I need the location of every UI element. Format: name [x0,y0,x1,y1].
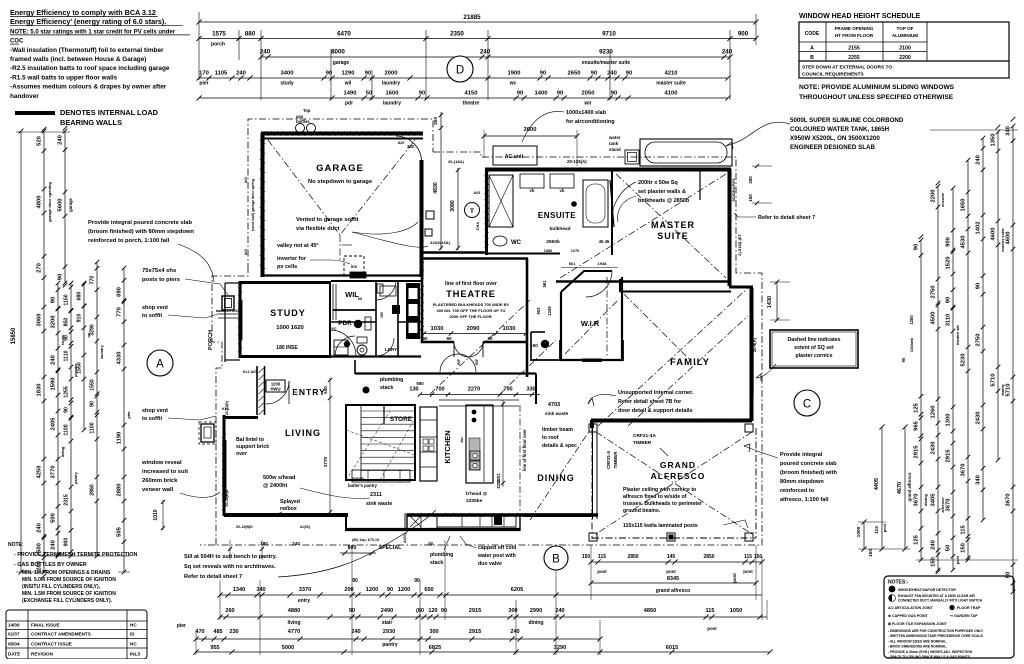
stairs and store [346,405,415,480]
svg-text:living: living [60,446,65,457]
svg-text:D: D [456,65,464,77]
svg-text:520: 520 [37,136,43,146]
svg-text:150: 150 [868,549,874,557]
svg-text:90: 90 [517,91,523,97]
svg-text:230: 230 [229,629,238,635]
right dims horizontal connectors [916,559,1018,561]
svg-text:1550: 1550 [90,379,96,391]
svg-text:900: 900 [738,31,749,38]
dining bulkhead dash-dot [519,405,521,530]
wall hatch theatre left [420,262,424,266]
svg-text:to roof: to roof [542,435,559,441]
garage walls [261,132,423,136]
svg-text:2201: 2201 [496,479,501,489]
svg-text:-R1.5 wall batts to upper floo: -R1.5 wall batts to upper floor walls [10,74,118,81]
passage vertical dim 4830 [440,112,442,250]
svg-text:pdr: pdr [345,101,353,107]
svg-text:HC: HC [130,623,137,628]
svg-text:COUNCIL REQUIREMENTS: COUNCIL REQUIREMENTS [802,72,865,78]
svg-text:alfresco, 1:100 fall: alfresco, 1:100 fall [780,497,829,503]
svg-text:45 45: 45 45 [599,239,610,244]
bottom dim 3290 6015 row right segment [600,651,770,653]
study walls [239,281,242,358]
svg-text:inverter for: inverter for [277,256,307,262]
svg-text:WINDOW HEAD HEIGHT SCHEDULE: WINDOW HEAD HEIGHT SCHEDULE [799,13,921,20]
svg-text:1200: 1200 [366,587,378,593]
family window right [749,320,751,395]
svg-text:2930: 2930 [383,629,395,635]
svg-text:4100: 4100 [665,91,678,97]
svg-text:theatre wir: theatre wir [955,324,960,345]
dining diagonal [530,430,590,520]
svg-text:1030: 1030 [503,326,516,332]
hall door arcs near kitchen [440,354,458,372]
svg-text:1200: 1200 [398,587,410,593]
svg-text:COLOURED WATER TANK, 1865H: COLOURED WATER TANK, 1865H [790,126,890,133]
svg-text:1490: 1490 [344,91,357,97]
svg-text:90: 90 [976,283,982,289]
svg-text:DENOTES INTERNAL LOAD: DENOTES INTERNAL LOAD [60,108,159,117]
svg-text:2155: 2155 [848,46,860,52]
svg-text:theatre: theatre [463,101,480,107]
svg-text:3290: 3290 [90,324,96,336]
svg-text:PC: PC [332,327,337,331]
svg-text:90: 90 [446,336,452,341]
family roof diagonals [598,288,748,426]
svg-text:MIN. 1.5M FROM SOURCE OF IGNIT: MIN. 1.5M FROM SOURCE OF IGNITION [22,591,116,597]
dining alfresco slider double line [592,428,594,519]
svg-text:post: post [955,555,960,564]
svg-text:5000: 5000 [282,645,294,651]
svg-text:4210: 4210 [665,71,678,77]
svg-text:90: 90 [946,297,952,303]
svg-text:2000 OFF THE FLOOR.: 2000 OFF THE FLOOR. [449,314,492,319]
svg-text:stand: stand [609,147,621,152]
svg-text:1600: 1600 [386,91,399,97]
svg-text:2270: 2270 [468,387,480,393]
svg-text:- SPACE TO CEILING SPACE WALL: - SPACE TO CEILING SPACE WALLS & GAS POI… [888,655,971,659]
svg-text:1110: 1110 [64,350,70,361]
wall hatch study left [238,284,242,288]
svg-text:820: 820 [398,141,404,145]
svg-text:150: 150 [748,194,753,202]
svg-text:340: 340 [976,475,982,485]
svg-text:5230: 5230 [961,354,967,367]
left dimension column 3 [57,283,59,556]
svg-text:90: 90 [591,71,597,77]
svg-text:NOTES:-: NOTES:- [888,580,909,586]
svg-text:650: 650 [424,587,433,593]
svg-text:5000L SUPER SLIMLINE COLORBOND: 5000L SUPER SLIMLINE COLORBOND [790,117,904,124]
left dimension column 5 [83,283,85,430]
svg-text:⊕ CAPPED GAS POINT: ⊕ CAPPED GAS POINT [888,614,929,618]
svg-text:post: post [882,523,887,532]
svg-text:910: 910 [77,314,83,323]
hall small boxes right of wil [377,284,383,293]
svg-text:240: 240 [292,541,300,546]
study window left [238,300,240,340]
svg-text:1010: 1010 [153,509,159,520]
svg-text:dining: dining [923,493,928,506]
svg-text:1349: 1349 [547,306,552,316]
svg-text:350: 350 [433,117,439,125]
living window left [222,440,224,500]
svg-text:115x115 kwila laminated posts: 115x115 kwila laminated posts [623,523,698,529]
bottom dim row 1 [220,594,762,596]
svg-text:FLOOR TRAP: FLOOR TRAP [957,606,981,610]
svg-text:900: 900 [946,237,952,247]
svg-text:1430: 1430 [767,296,773,308]
garage door arc top right [396,136,422,160]
svg-text:90: 90 [557,91,563,97]
entry wall column [256,366,258,415]
wall hatch kitchen bottom [410,513,414,517]
svg-text:90: 90 [441,608,447,614]
svg-text:post: post [597,569,607,574]
svg-text:garage: garage [333,60,350,66]
alfresco open boundary dash-dot with posts [591,428,593,539]
svg-text:505: 505 [117,526,123,536]
svg-text:TOP OF: TOP OF [897,26,914,31]
kitchen cabinets bottom row [437,514,516,527]
svg-text:1270: 1270 [571,249,579,253]
wall hatch garage right [420,163,424,167]
svg-text:LIVING: LIVING [285,428,321,438]
svg-text:690: 690 [117,287,123,297]
svg-text:post: post [666,569,676,574]
section marker B [544,546,568,570]
svg-text:MASTER: MASTER [651,220,695,230]
dimension row: overall 21885 [199,21,756,23]
left dimension column garage door [43,131,45,572]
svg-text:duo valve: duo valve [478,561,502,567]
svg-text:(west wall) garage door spring: (west wall) garage door spring [251,179,255,231]
svg-text:2100: 2100 [899,46,911,52]
svg-text:2850: 2850 [627,554,638,560]
svg-text:2325be: 2325be [466,498,483,504]
svg-text:1590: 1590 [51,378,57,391]
svg-text:340: 340 [1006,126,1012,136]
svg-text:400 DN. 700 OFF THE FLOOR UP T: 400 DN. 700 OFF THE FLOOR UP TO [437,308,506,313]
svg-text:4330: 4330 [117,352,123,365]
wall hatch living bottom [228,513,232,517]
pantry cabinets bottom left [405,514,437,529]
svg-text:⊠ FLOOR TILE EXPANSION JOINT: ⊠ FLOOR TILE EXPANSION JOINT [888,622,948,626]
svg-text:240: 240 [510,629,519,635]
svg-text:240: 240 [58,135,64,145]
svg-text:PLASTERED BULKHEADS 700 WIDE B: PLASTERED BULKHEADS 700 WIDE BY [433,302,510,307]
small wall stub pdr [398,321,421,323]
svg-text:CONTRACT ISSUE: CONTRACT ISSUE [31,642,72,647]
svg-text:A/G: A/G [244,249,248,256]
svg-text:240: 240 [51,355,57,365]
svg-text:alfresco: alfresco [940,497,945,513]
kitchen nook walls near family [560,340,623,360]
svg-text:water: water [608,135,621,140]
svg-text:bulkheads @ 2850b: bulkheads @ 2850b [638,198,690,204]
svg-text:dw: dw [460,437,464,442]
svg-text:-R2.5 insulation batts to roof: -R2.5 insulation batts to roof space inc… [10,65,170,72]
svg-text:15850: 15850 [11,327,17,344]
svg-text:2311: 2311 [370,492,382,498]
svg-text:90: 90 [64,407,70,413]
ensuite partition right [611,170,613,255]
svg-text:3770: 3770 [51,466,57,479]
svg-text:1000: 1000 [856,526,862,537]
svg-text:90: 90 [90,401,96,407]
svg-text:Dashed line indicates: Dashed line indicates [787,337,840,343]
svg-text:470: 470 [195,629,204,635]
alfresco left wall upper [590,420,594,428]
theatre double door arcs [454,342,469,357]
pdr vanity box [380,286,396,296]
garage wall hatch texture left [260,140,266,144]
svg-text:entry: entry [298,598,310,604]
right dimension column group [920,240,922,560]
svg-text:01/07: 01/07 [8,632,20,637]
grand alfresco right dim pair 4405 4670 [881,427,883,549]
svg-text:1300: 1300 [946,414,952,427]
svg-text:150: 150 [931,557,937,567]
svg-text:4703: 4703 [548,402,560,408]
svg-text:reinforced to: reinforced to [780,488,815,494]
living internal dim 540 3770 [329,378,331,514]
svg-text:over: over [236,451,247,457]
svg-text:485: 485 [213,629,222,635]
svg-text:330: 330 [526,387,535,393]
dimension extender lines top [198,12,200,80]
svg-text:90: 90 [540,71,546,77]
svg-text:WIL: WIL [345,290,359,299]
svg-text:plumbing: plumbing [380,377,403,383]
svg-text:260mm brick: 260mm brick [142,478,178,484]
svg-text:master suite: master suite [1000,227,1005,251]
left dimension column 4 [70,283,72,556]
svg-text:Bal lintel to: Bal lintel to [236,437,264,443]
hall doors arcs study area [330,330,356,356]
svg-text:1050: 1050 [730,608,742,614]
svg-text:2990: 2990 [530,608,542,614]
svg-text:post: post [743,569,753,574]
master door arc [612,182,636,225]
svg-text:bulkhead: bulkhead [549,226,570,232]
svg-text:4880: 4880 [288,608,300,614]
hall door arc bottom [335,336,355,356]
wir closet left [531,332,559,360]
left dimension column 240 garage [64,131,66,283]
svg-text:80F: 80F [457,358,461,365]
entry outer wall [223,415,226,516]
svg-text:90: 90 [422,336,428,341]
svg-text:Energy Efficiency to comply wi: Energy Efficiency to comply with BCA 3.1… [10,8,156,17]
svg-text:veneer wall: veneer wall [142,487,174,493]
svg-text:KITCHEN: KITCHEN [443,430,452,463]
svg-text:master suite: master suite [656,81,686,87]
svg-text:1190: 1190 [117,432,123,445]
svg-text:2405: 2405 [51,417,57,431]
svg-text:6825: 6825 [429,645,441,651]
hall filled dot 150 [541,340,549,348]
svg-text:3670: 3670 [914,494,920,507]
svg-text:20-(18A): 20-(18A) [448,159,464,164]
svg-text:340: 340 [256,587,265,593]
chute circle T [465,203,480,218]
svg-text:Provide integral poured concre: Provide integral poured concrete slab [88,220,193,226]
svg-text:770: 770 [90,276,96,285]
svg-text:2350: 2350 [450,31,464,38]
svg-text:garage door opening: garage door opening [47,182,52,222]
family right wall [750,288,754,421]
svg-text:4600: 4600 [1006,232,1012,245]
hall lower wall under theatre [355,372,536,374]
svg-text:300: 300 [508,608,517,614]
svg-text:(broom finished) with 80mm ste: (broom finished) with 80mm stepdown [88,229,194,235]
svg-text:240: 240 [555,608,564,614]
svg-text:grand alfresco: grand alfresco [656,588,690,594]
svg-text:to soffit: to soffit [142,313,162,319]
svg-text:capped off cold: capped off cold [478,545,516,551]
svg-text:561: 561 [542,280,547,288]
left dims top connector [16,131,70,133]
svg-text:1575: 1575 [212,31,226,38]
svg-text:(EXCHANGE FILL CYLINDERS ONLY): (EXCHANGE FILL CYLINDERS ONLY). [22,598,113,604]
svg-text:6470: 6470 [337,31,351,38]
svg-text:dp: dp [428,541,434,546]
svg-text:115: 115 [598,554,606,560]
svg-text:stack: stack [430,560,443,566]
svg-text:A/G: A/G [474,191,481,195]
svg-text:bottles: bottles [296,119,310,124]
svg-text:5710: 5710 [1006,384,1012,397]
svg-text:770: 770 [117,307,123,317]
svg-text:plumbing: plumbing [430,552,453,558]
ensuite vanity basins [520,174,544,188]
svg-text:2200: 2200 [931,190,937,203]
svg-text:trusses. Bulkheads to perimete: trusses. Bulkheads to perimeter [623,501,702,507]
wall between wir and family [619,279,621,292]
svg-text:CRF21-5: CRF21-5 [606,451,611,469]
bottom dim row 4 [196,651,600,653]
svg-text:X950W X5200L, ON 3500X1200: X950W X5200L, ON 3500X1200 [790,135,880,142]
svg-text:415/2(16A): 415/2(16A) [430,240,451,245]
svg-text:study: study [280,81,294,87]
wall hatch ensuite left [485,172,489,176]
svg-text:2090: 2090 [467,326,480,332]
svg-text:valley not at 45°: valley not at 45° [277,243,319,249]
svg-text:20-9(A): 20-9(A) [752,337,757,352]
svg-text:poured concrete slab: poured concrete slab [780,461,837,467]
svg-text:2000: 2000 [385,71,398,77]
room label ENSUITE [571,201,577,207]
svg-text:ENSUITE: ENSUITE [538,211,576,220]
svg-text:880: 880 [245,31,256,38]
svg-text:2915: 2915 [469,608,481,614]
svg-text:9710: 9710 [602,31,616,38]
svg-text:CONTRACT AMENDMENTS: CONTRACT AMENDMENTS [31,632,91,637]
dim row 130 700 2270 700 330 [420,394,540,396]
bottom dim row 2 [220,616,767,618]
svg-text:shop vent: shop vent [142,408,168,414]
svg-text:for airconditioning: for airconditioning [566,119,615,125]
bottom dim row alfresco 115 2850 145 2850 115 [591,561,762,563]
svg-text:stack: stack [380,385,393,391]
svg-text:SMOKE/HEAT/VAPOR DETECTOR: SMOKE/HEAT/VAPOR DETECTOR [898,588,956,592]
svg-text:2915: 2915 [946,449,952,463]
svg-text:STEP DOWN AT EXTERNAL DOORS TO: STEP DOWN AT EXTERNAL DOORS TO [802,65,892,71]
small wall boxes on garage wall [426,211,434,219]
svg-text:6015: 6015 [666,645,678,651]
svg-text:INLS: INLS [130,652,140,657]
svg-text:ALUMINIUM: ALUMINIUM [892,33,918,38]
wall hatch alfresco top [595,419,599,423]
svg-text:framed walls (incl. between Ho: framed walls (incl. between House & Gara… [10,56,146,63]
svg-text:90: 90 [64,335,70,341]
svg-text:3370: 3370 [299,587,311,593]
wir dash-dot roof line [606,277,608,358]
svg-text:5710: 5710 [991,374,997,387]
svg-text:3670: 3670 [946,499,952,512]
ensuite bath [583,180,608,227]
dimension row: 170 1105 240 3400 90 1290 90 2000 ... 1900 90 2650 90 240 90 4210 [199,77,728,79]
bottom dim row 3 [196,638,600,640]
svg-text:145: 145 [667,554,676,560]
svg-text:DATE: DATE [8,652,20,657]
legend notes box bottom right [884,576,1014,658]
section marker A [147,350,173,376]
svg-text:240: 240 [260,49,271,56]
svg-text:family: family [1000,383,1005,395]
svg-text:1105: 1105 [215,71,228,77]
svg-text:115: 115 [705,608,714,614]
ac unit box [493,146,537,165]
dimension row: 8000 garage / 9230 [261,56,730,58]
svg-text:TIMBER: TIMBER [613,451,618,469]
svg-text:wir: wir [583,101,591,107]
left dimension column 6 [96,262,98,556]
svg-text:GARAGE: GARAGE [316,163,364,174]
svg-text:1948: 1948 [598,261,608,266]
svg-text:9230: 9230 [599,49,613,56]
leader from tank to text [726,122,790,146]
svg-text:260: 260 [225,608,234,614]
svg-text:SPECIAL: SPECIAL [379,545,402,551]
dimension 3600 above ensuite [484,135,577,137]
svg-text:3200: 3200 [51,316,57,329]
svg-text:1350: 1350 [991,134,997,147]
svg-text:b'head @: b'head @ [466,491,488,497]
svg-text:support brick: support brick [236,444,269,450]
svg-text:wil: wil [344,81,352,87]
living walls bottom [224,513,348,517]
revision table bottom left [6,610,147,659]
svg-text:240: 240 [351,629,360,635]
porch walls and pier [225,282,240,284]
svg-text:- PROVIDE A 20mm (EXH.) HEIGH: - PROVIDE A 20mm (EXH.) HEIGHT-ADJ. INSP… [888,650,973,654]
svg-text:4830: 4830 [433,182,439,194]
svg-text:porch: porch [211,42,225,48]
wir hall diagonal [500,340,556,394]
svg-text:plaster cornice: plaster cornice [796,353,833,359]
svg-text:90: 90 [487,336,493,341]
svg-text:water post with: water post with [477,553,516,559]
svg-text:CODE: CODE [805,31,820,37]
porch step lines [218,313,238,315]
svg-text:2880: 2880 [117,484,123,497]
svg-text:ALFRESCO: ALFRESCO [651,471,706,481]
svg-text:increased to suit: increased to suit [142,469,188,475]
svg-text:3080: 3080 [450,200,456,212]
svg-text:A/J ARTICULATION JOINT: A/J ARTICULATION JOINT [888,606,934,610]
